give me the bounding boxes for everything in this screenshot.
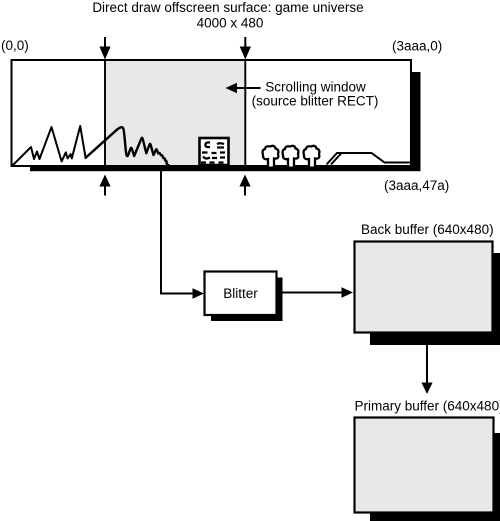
up arrow left (bottom) [99, 175, 110, 196]
arrow blitter to back buffer [283, 287, 354, 298]
down arrow right (top) [240, 37, 251, 60]
svg-text:(3aaa,47a): (3aaa,47a) [384, 178, 449, 193]
scrolling window gray region [105, 60, 245, 165]
svg-text:Primary buffer (640x480): Primary buffer (640x480) [355, 399, 500, 414]
flow line from surface to blitter [161, 166, 204, 299]
svg-text:(0,0): (0,0) [1, 38, 29, 53]
back buffer shadow [370, 253, 500, 345]
tree 1 [263, 146, 279, 167]
mountain ridge and foothills (right) [86, 127, 169, 165]
scrolling window label line 2 [252, 94, 379, 109]
svg-text:Direct draw offscreen surface:: Direct draw offscreen surface: game univ… [92, 0, 363, 15]
back buffer box [355, 242, 493, 333]
mountains jagged range (left) [13, 126, 86, 166]
title: direct draw offscreen surface [92, 0, 363, 15]
svg-text:(source blitter RECT): (source blitter RECT) [252, 94, 379, 109]
surface drop shadow bottom bar (ground bar) [30, 166, 421, 171]
up arrow right (bottom) [239, 175, 250, 196]
label (3aaa,47a) [384, 178, 449, 193]
svg-text:Blitter: Blitter [223, 286, 258, 301]
blitter shadow [211, 278, 283, 322]
primary buffer label [355, 399, 500, 414]
primary buffer shadow [370, 433, 500, 521]
scrolling window pointer arrow [226, 83, 261, 94]
tree 2 [283, 146, 299, 167]
primary buffer box [355, 418, 494, 513]
label (3aaa,0) [392, 39, 442, 54]
game universe surface rectangle [12, 60, 412, 166]
building with texture [200, 138, 229, 165]
down arrow left (top) [99, 37, 110, 60]
size label 4000 x 480 [197, 16, 264, 31]
blitter box [205, 272, 277, 316]
svg-text:Scrolling window: Scrolling window [265, 80, 366, 95]
label (0,0) [1, 38, 29, 53]
back buffer label [361, 222, 494, 237]
svg-text:Back buffer (640x480): Back buffer (640x480) [361, 222, 494, 237]
arrow back buffer to primary buffer [421, 345, 432, 394]
blitter label [223, 286, 258, 301]
mesa hill [327, 153, 411, 165]
svg-text:4000 x 480: 4000 x 480 [197, 16, 264, 31]
svg-text:(3aaa,0): (3aaa,0) [392, 39, 442, 54]
surface drop shadow right bar [412, 72, 421, 171]
scrolling window label line 1 [265, 80, 366, 95]
tree 3 [304, 146, 320, 167]
